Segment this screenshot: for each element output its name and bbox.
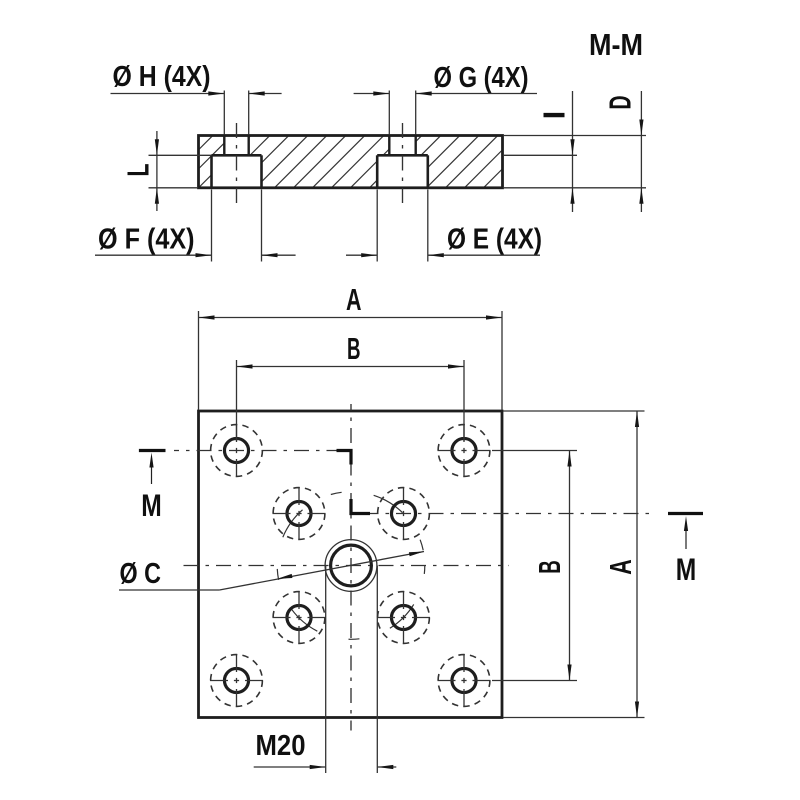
dimension L (counterbore depth, left): [121, 131, 212, 211]
svg-text:Ø H (4X): Ø H (4X): [113, 61, 211, 93]
dimension M20 (center thread): [254, 566, 397, 774]
corner hole top-left (ØH/ØF): [211, 424, 263, 477]
plate outline (section view): [199, 136, 503, 188]
dimension A (right height): [503, 411, 645, 718]
dimension D (plate thickness): [503, 91, 646, 212]
counterbored hole left (ØH/ØF) in section: [212, 137, 262, 187]
svg-text:B: B: [532, 560, 567, 574]
corner hole top-right (ØH/ØF): [438, 424, 491, 477]
cutting plane M-M, right arm: [370, 513, 703, 515]
svg-text:M: M: [676, 551, 697, 587]
dimension Ø E (4X): [346, 190, 542, 262]
svg-text:Ø F (4X): Ø F (4X): [98, 224, 195, 256]
dimension Ø H (4X): [111, 61, 282, 135]
svg-text:M20: M20: [256, 730, 306, 762]
centerline hole left (section): [236, 123, 238, 210]
svg-text:M-M: M-M: [589, 27, 643, 62]
svg-text:D: D: [603, 96, 638, 110]
vertical centerline (plan): [350, 404, 352, 731]
dimension A (top width): [199, 282, 503, 410]
dimension Ø C (bolt circle): [119, 552, 424, 591]
svg-text:Ø E (4X): Ø E (4X): [447, 224, 542, 256]
svg-text:A: A: [346, 282, 362, 317]
middle hole top-left (ØG/ØE): [273, 487, 326, 540]
plate outline (plan view): [199, 411, 503, 718]
centerline hole right (section): [402, 123, 404, 207]
horizontal centerline (plan): [184, 565, 510, 567]
dimension Ø F (4X): [95, 190, 296, 262]
svg-text:I: I: [537, 111, 572, 120]
bolt circle Ø C (dashed): [277, 492, 425, 640]
middle hole top-right (ØG/ØE): [378, 487, 430, 540]
cutting plane M-M, lower bend: [351, 499, 370, 514]
middle hole bottom-left (ØG/ØE): [273, 591, 326, 644]
svg-text:Ø C: Ø C: [120, 558, 162, 590]
view arrow M right: [676, 516, 697, 587]
cutting plane M-M, left arm: [139, 449, 337, 452]
svg-text:L: L: [121, 164, 156, 177]
section title M-M: [589, 27, 643, 62]
cutting plane M-M, upper bend: [337, 451, 352, 465]
middle hole bottom-right (ØG/ØE): [377, 591, 430, 644]
svg-text:M: M: [141, 487, 162, 523]
svg-text:B: B: [347, 331, 361, 366]
svg-text:A: A: [603, 559, 638, 575]
corner hole bottom-right (ØH/ØF): [438, 654, 491, 707]
counterbored hole right (ØG/ØE) in section: [377, 137, 428, 187]
hatched cross-section of plate: [139, 131, 560, 191]
dimension Ø G (4X): [354, 62, 537, 135]
dimension B (right hole spacing): [492, 451, 577, 681]
dimension I (counterbore depth, right): [503, 91, 577, 212]
center tapped hole M20: [325, 540, 377, 592]
view arrow M left: [141, 453, 162, 524]
dimension B (top hole spacing): [237, 331, 465, 441]
corner hole bottom-left (ØH/ØF): [210, 654, 263, 707]
svg-text:Ø G (4X): Ø G (4X): [434, 62, 529, 94]
